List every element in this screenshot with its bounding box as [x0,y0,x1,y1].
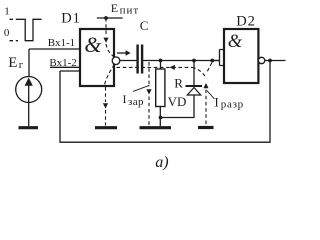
svg-text:D2: D2 [236,14,255,30]
svg-text:а): а) [155,154,168,171]
svg-text:зар: зар [128,96,144,108]
svg-text:&: & [228,32,243,52]
svg-text:VD: VD [168,94,187,109]
svg-text:0: 0 [4,27,10,39]
svg-text:&: & [84,32,102,57]
svg-text:Е: Е [111,1,118,15]
svg-text:E: E [8,55,17,71]
svg-text:D1: D1 [61,11,80,27]
svg-text:I: I [215,96,219,110]
svg-text:разр: разр [221,98,244,110]
svg-text:г: г [19,59,24,71]
svg-text:Вх1-1: Вх1-1 [48,37,75,49]
svg-text:I: I [123,92,127,106]
svg-text:R: R [174,76,183,91]
svg-text:1: 1 [4,6,10,18]
svg-text:пит: пит [120,4,140,16]
svg-text:Вх1-2: Вх1-2 [49,57,76,69]
svg-text:С: С [140,18,149,33]
